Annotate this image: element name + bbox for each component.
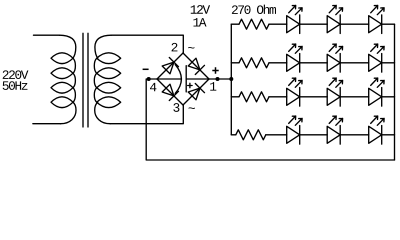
wire left LED bus vertical [230, 24, 232, 135]
LED LED22 [327, 54, 340, 71]
wire row 2 from left bus [231, 62, 239, 64]
LED LED43 [369, 126, 382, 143]
label 50Hz [3, 81, 28, 90]
wire primary bottom lead [33, 123, 61, 125]
LED LED33 [369, 88, 382, 105]
wire right LED bus vertical [394, 24, 396, 160]
label 1A [193, 18, 206, 26]
wire node 1 to LED bus [209, 78, 231, 80]
wire row 4 from left bus [231, 134, 236, 136]
wire row 2 resistor to first LED [269, 62, 287, 64]
label pin 3 [173, 103, 179, 112]
LED LED31 [287, 88, 300, 105]
wire row 3 after LED 3 [382, 96, 395, 98]
wire row 4 after LED 1 [300, 134, 328, 136]
resistor R1 270 Ohm [239, 19, 269, 29]
wire row 3 after LED 2 [340, 96, 369, 98]
wire row 4 after LED 3 [382, 134, 395, 136]
LED LED41 [287, 126, 300, 143]
wire secondary top lead to bridge node 2 [111, 35, 183, 53]
diode D3 bridge left-bottom [157, 79, 183, 105]
LED LED11 [287, 16, 300, 33]
wire row 3 from left bus [231, 96, 239, 98]
wire row 3 after LED 1 [300, 96, 328, 98]
wire node4 to capacitor [157, 78, 181, 80]
wire row 2 after LED 2 [340, 62, 369, 64]
wire row 1 after LED 1 [300, 23, 328, 25]
diode D4 bridge bottom-right [183, 79, 209, 105]
wire row 1 after LED 3 [382, 23, 395, 25]
wire node 4 to bottom bus [146, 79, 394, 160]
LED LED13 [369, 16, 382, 33]
junction dot node 4 terminal [147, 77, 151, 81]
label pin 1 [210, 82, 216, 90]
transformer T1 core [83, 33, 88, 127]
wire row 1 resistor to first LED [269, 23, 287, 25]
wire row 2 after LED 1 [300, 62, 328, 64]
label 12V [191, 5, 210, 14]
wire secondary bottom lead to bridge node 3 [110, 105, 183, 124]
resistor R2 270 Ohm [239, 58, 269, 68]
capacitor C1 curved plate [175, 65, 181, 94]
wire primary top lead [34, 34, 60, 36]
LED LED32 [327, 88, 340, 105]
label AC tilde top [188, 47, 194, 49]
label AC tilde bottom [189, 107, 195, 109]
wire row 1 after LED 2 [340, 23, 369, 25]
label pin 4 [150, 83, 156, 91]
label 220V [3, 70, 29, 79]
junction dot at left LED bus [229, 77, 233, 81]
wire row 2 after LED 3 [382, 62, 395, 64]
LED LED23 [369, 54, 382, 71]
transformer T1 primary winding [60, 35, 76, 58]
diode D1 bridge left-top [157, 53, 183, 79]
capacitor C1 straight plate [185, 66, 187, 92]
diode D2 bridge top-right [183, 53, 209, 79]
LED LED21 [287, 54, 300, 71]
transformer T1 secondary winding [95, 35, 111, 58]
capacitor C1 polarity plus [188, 83, 192, 87]
LED LED42 [327, 126, 340, 143]
wire row 4 resistor to first LED [266, 134, 287, 136]
label 270 Ohm [232, 5, 276, 14]
label minus at node 4 [143, 68, 149, 70]
label pin 2 [172, 43, 178, 52]
junction dot node 1 terminal [216, 77, 220, 81]
resistor R4 270 Ohm [236, 130, 266, 140]
wire capacitor to node1 [186, 78, 209, 80]
LED LED12 [327, 16, 340, 33]
wire row 1 from left bus [231, 23, 239, 25]
wire row 3 resistor to first LED [269, 96, 287, 98]
label plus at node 1 [212, 67, 218, 73]
resistor R3 270 Ohm [239, 92, 269, 102]
wire row 4 after LED 2 [340, 134, 369, 136]
